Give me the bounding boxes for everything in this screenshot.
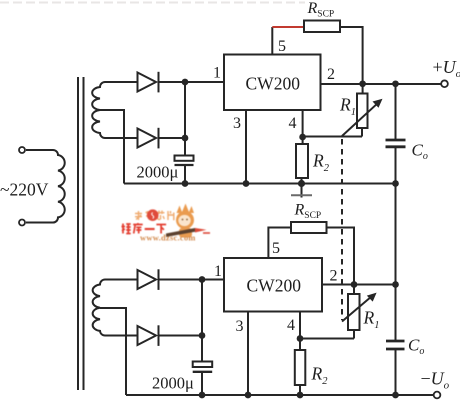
svg-text:3: 3 [233, 115, 241, 132]
svg-text:4: 4 [287, 317, 295, 334]
svg-text:Co: Co [408, 336, 424, 358]
svg-text:2000μ: 2000μ [137, 163, 179, 182]
svg-text:1: 1 [213, 65, 221, 82]
svg-text:R1: R1 [363, 308, 380, 332]
svg-text:5: 5 [272, 240, 280, 257]
svg-text:www.dzsc.com: www.dzsc.com [140, 234, 196, 243]
svg-text:~220V: ~220V [0, 180, 49, 200]
svg-text:Co: Co [412, 141, 428, 163]
svg-text:4: 4 [289, 115, 297, 132]
svg-text:2: 2 [327, 66, 335, 83]
svg-text:2000μ: 2000μ [152, 374, 194, 393]
svg-text:CW200: CW200 [247, 276, 302, 296]
svg-text:RSCP: RSCP [307, 0, 335, 20]
svg-text:RSCP: RSCP [294, 202, 322, 222]
svg-text:5: 5 [278, 38, 286, 55]
svg-text:−Uo: −Uo [421, 369, 450, 392]
svg-text:R2: R2 [311, 364, 329, 388]
svg-text:1: 1 [214, 263, 222, 280]
svg-text:3: 3 [236, 318, 244, 335]
svg-text:R1: R1 [339, 95, 356, 119]
svg-text:+Uo: +Uo [433, 57, 460, 80]
svg-text:CW200: CW200 [246, 74, 301, 94]
svg-text:2: 2 [330, 268, 338, 285]
svg-text:R2: R2 [312, 151, 330, 175]
